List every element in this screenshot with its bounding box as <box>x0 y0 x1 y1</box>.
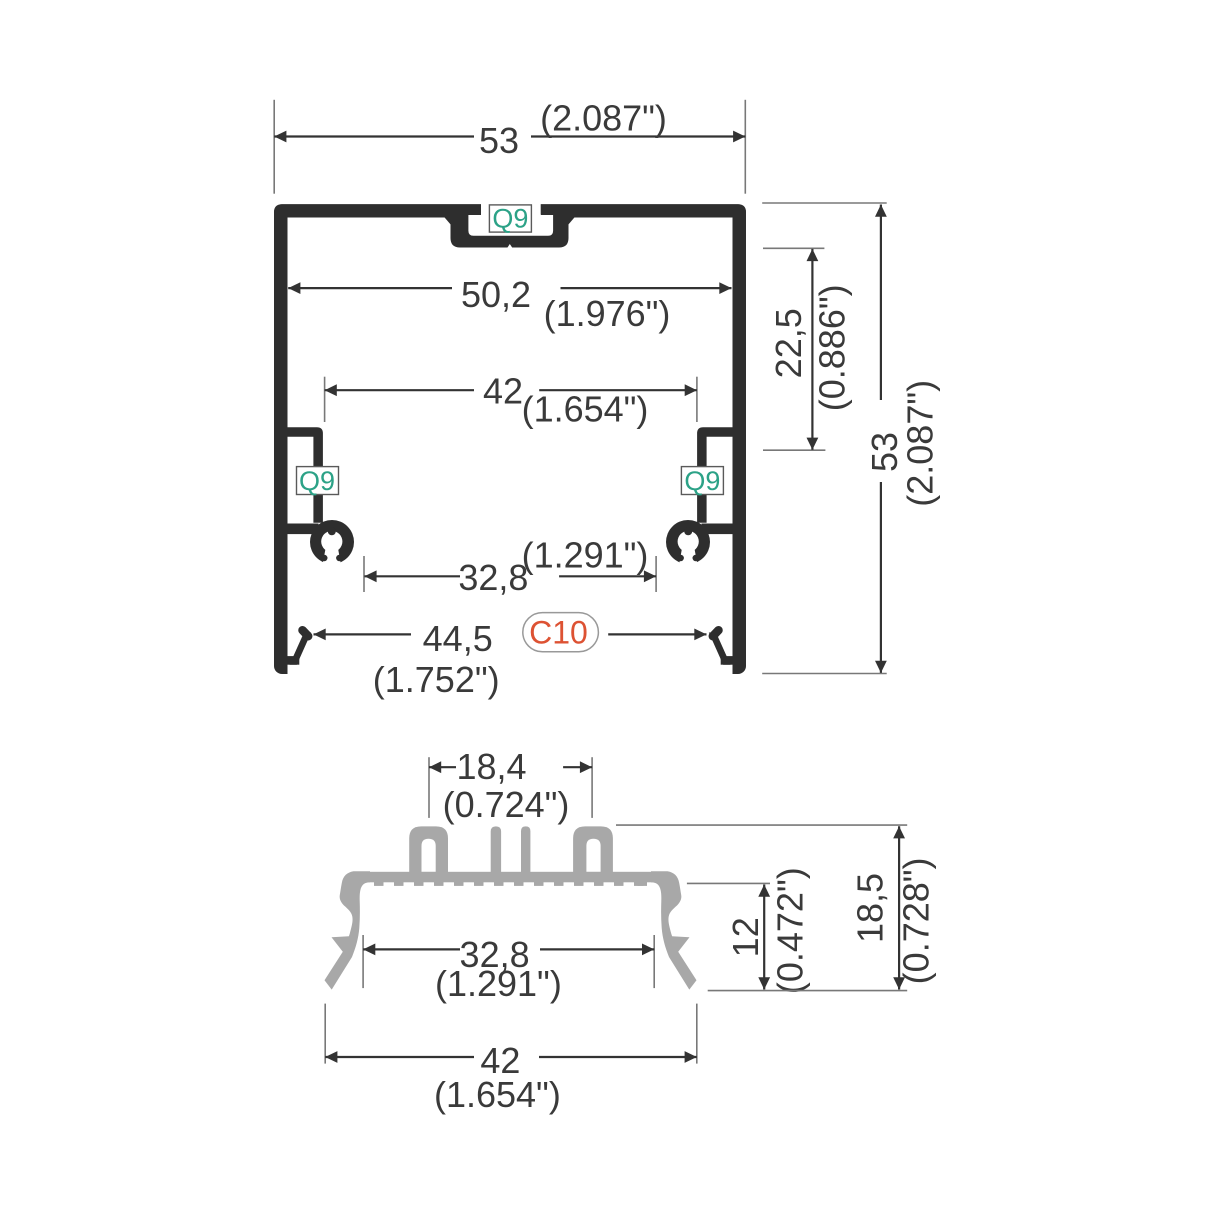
dim 18,4 <box>428 757 430 818</box>
svg-text:(0.728"): (0.728") <box>896 857 937 984</box>
svg-text:32,8: 32,8 <box>458 557 528 598</box>
svg-text:Q9: Q9 <box>492 203 528 233</box>
svg-text:22,5: 22,5 <box>768 308 809 378</box>
svg-text:(1.654"): (1.654") <box>434 1074 561 1115</box>
top wall lips redraw <box>274 204 481 217</box>
svg-text:Q9: Q9 <box>299 466 335 496</box>
dim 53 top: ext lines <box>273 100 275 194</box>
svg-text:(1.752"): (1.752") <box>373 659 500 700</box>
dim 42 <box>324 377 326 422</box>
svg-text:53: 53 <box>479 120 519 161</box>
dim 50,2 <box>288 287 452 289</box>
svg-text:50,2: 50,2 <box>461 274 531 315</box>
right wing <box>651 871 697 989</box>
left foot strut <box>290 633 312 665</box>
svg-text:(1.976"): (1.976") <box>544 293 671 334</box>
Q9 top box <box>489 205 531 232</box>
left shelf <box>280 524 319 535</box>
top screw channel cavity <box>468 214 553 236</box>
v-notch center <box>507 244 513 249</box>
svg-text:18,5: 18,5 <box>849 873 890 943</box>
right clip <box>666 520 710 568</box>
right shelf <box>702 524 741 535</box>
middle fingers <box>491 826 501 872</box>
svg-text:42: 42 <box>483 371 523 412</box>
left foot hook tip <box>303 630 309 636</box>
dim 22,5 right: ext lines <box>763 247 824 249</box>
right Q9 arm and finger <box>697 427 740 523</box>
svg-text:(1.291"): (1.291") <box>435 963 562 1004</box>
svg-text:(1.654"): (1.654") <box>522 389 649 430</box>
left clip <box>310 520 354 568</box>
dim 44,5 <box>314 633 412 635</box>
svg-text:(2.087"): (2.087") <box>540 98 667 139</box>
top screw channel outer <box>451 214 569 248</box>
svg-text:12: 12 <box>725 917 766 957</box>
Q9 right box <box>681 467 723 495</box>
outer body <box>274 204 746 674</box>
right foot strut <box>709 633 731 665</box>
Q9 left box <box>297 467 339 495</box>
right loop finger <box>573 826 613 872</box>
right foot hook tip <box>713 630 719 636</box>
svg-text:(0.724"): (0.724") <box>443 784 570 825</box>
dim 32,8 main <box>363 556 365 592</box>
svg-text:(1.291"): (1.291") <box>522 535 649 576</box>
dim 18,5 right <box>616 824 907 826</box>
svg-text:(2.087"): (2.087") <box>900 380 941 507</box>
left wing <box>325 871 371 989</box>
dim 53 right: ext lines <box>762 202 887 204</box>
svg-text:C10: C10 <box>529 615 588 651</box>
dim 53 top: line + arrows <box>274 135 474 137</box>
teeth <box>374 882 647 886</box>
svg-text:(0.886"): (0.886") <box>812 284 853 411</box>
left Q9 arm and finger <box>280 427 323 523</box>
inner cavity punch <box>288 215 733 680</box>
dim 12 right <box>687 882 770 884</box>
svg-text:Q9: Q9 <box>684 466 720 496</box>
right foot arm <box>721 656 734 665</box>
left foot arm <box>286 656 299 665</box>
left loop finger <box>409 826 448 872</box>
svg-text:18,4: 18,4 <box>456 746 526 787</box>
opening punch <box>481 202 541 216</box>
dim 32,8 diffuser <box>362 935 364 988</box>
svg-text:(0.472"): (0.472") <box>770 867 811 994</box>
plate <box>354 872 668 883</box>
svg-text:44,5: 44,5 <box>423 618 493 659</box>
C10 oval <box>523 613 599 652</box>
dim 42 diffuser <box>324 1004 326 1064</box>
